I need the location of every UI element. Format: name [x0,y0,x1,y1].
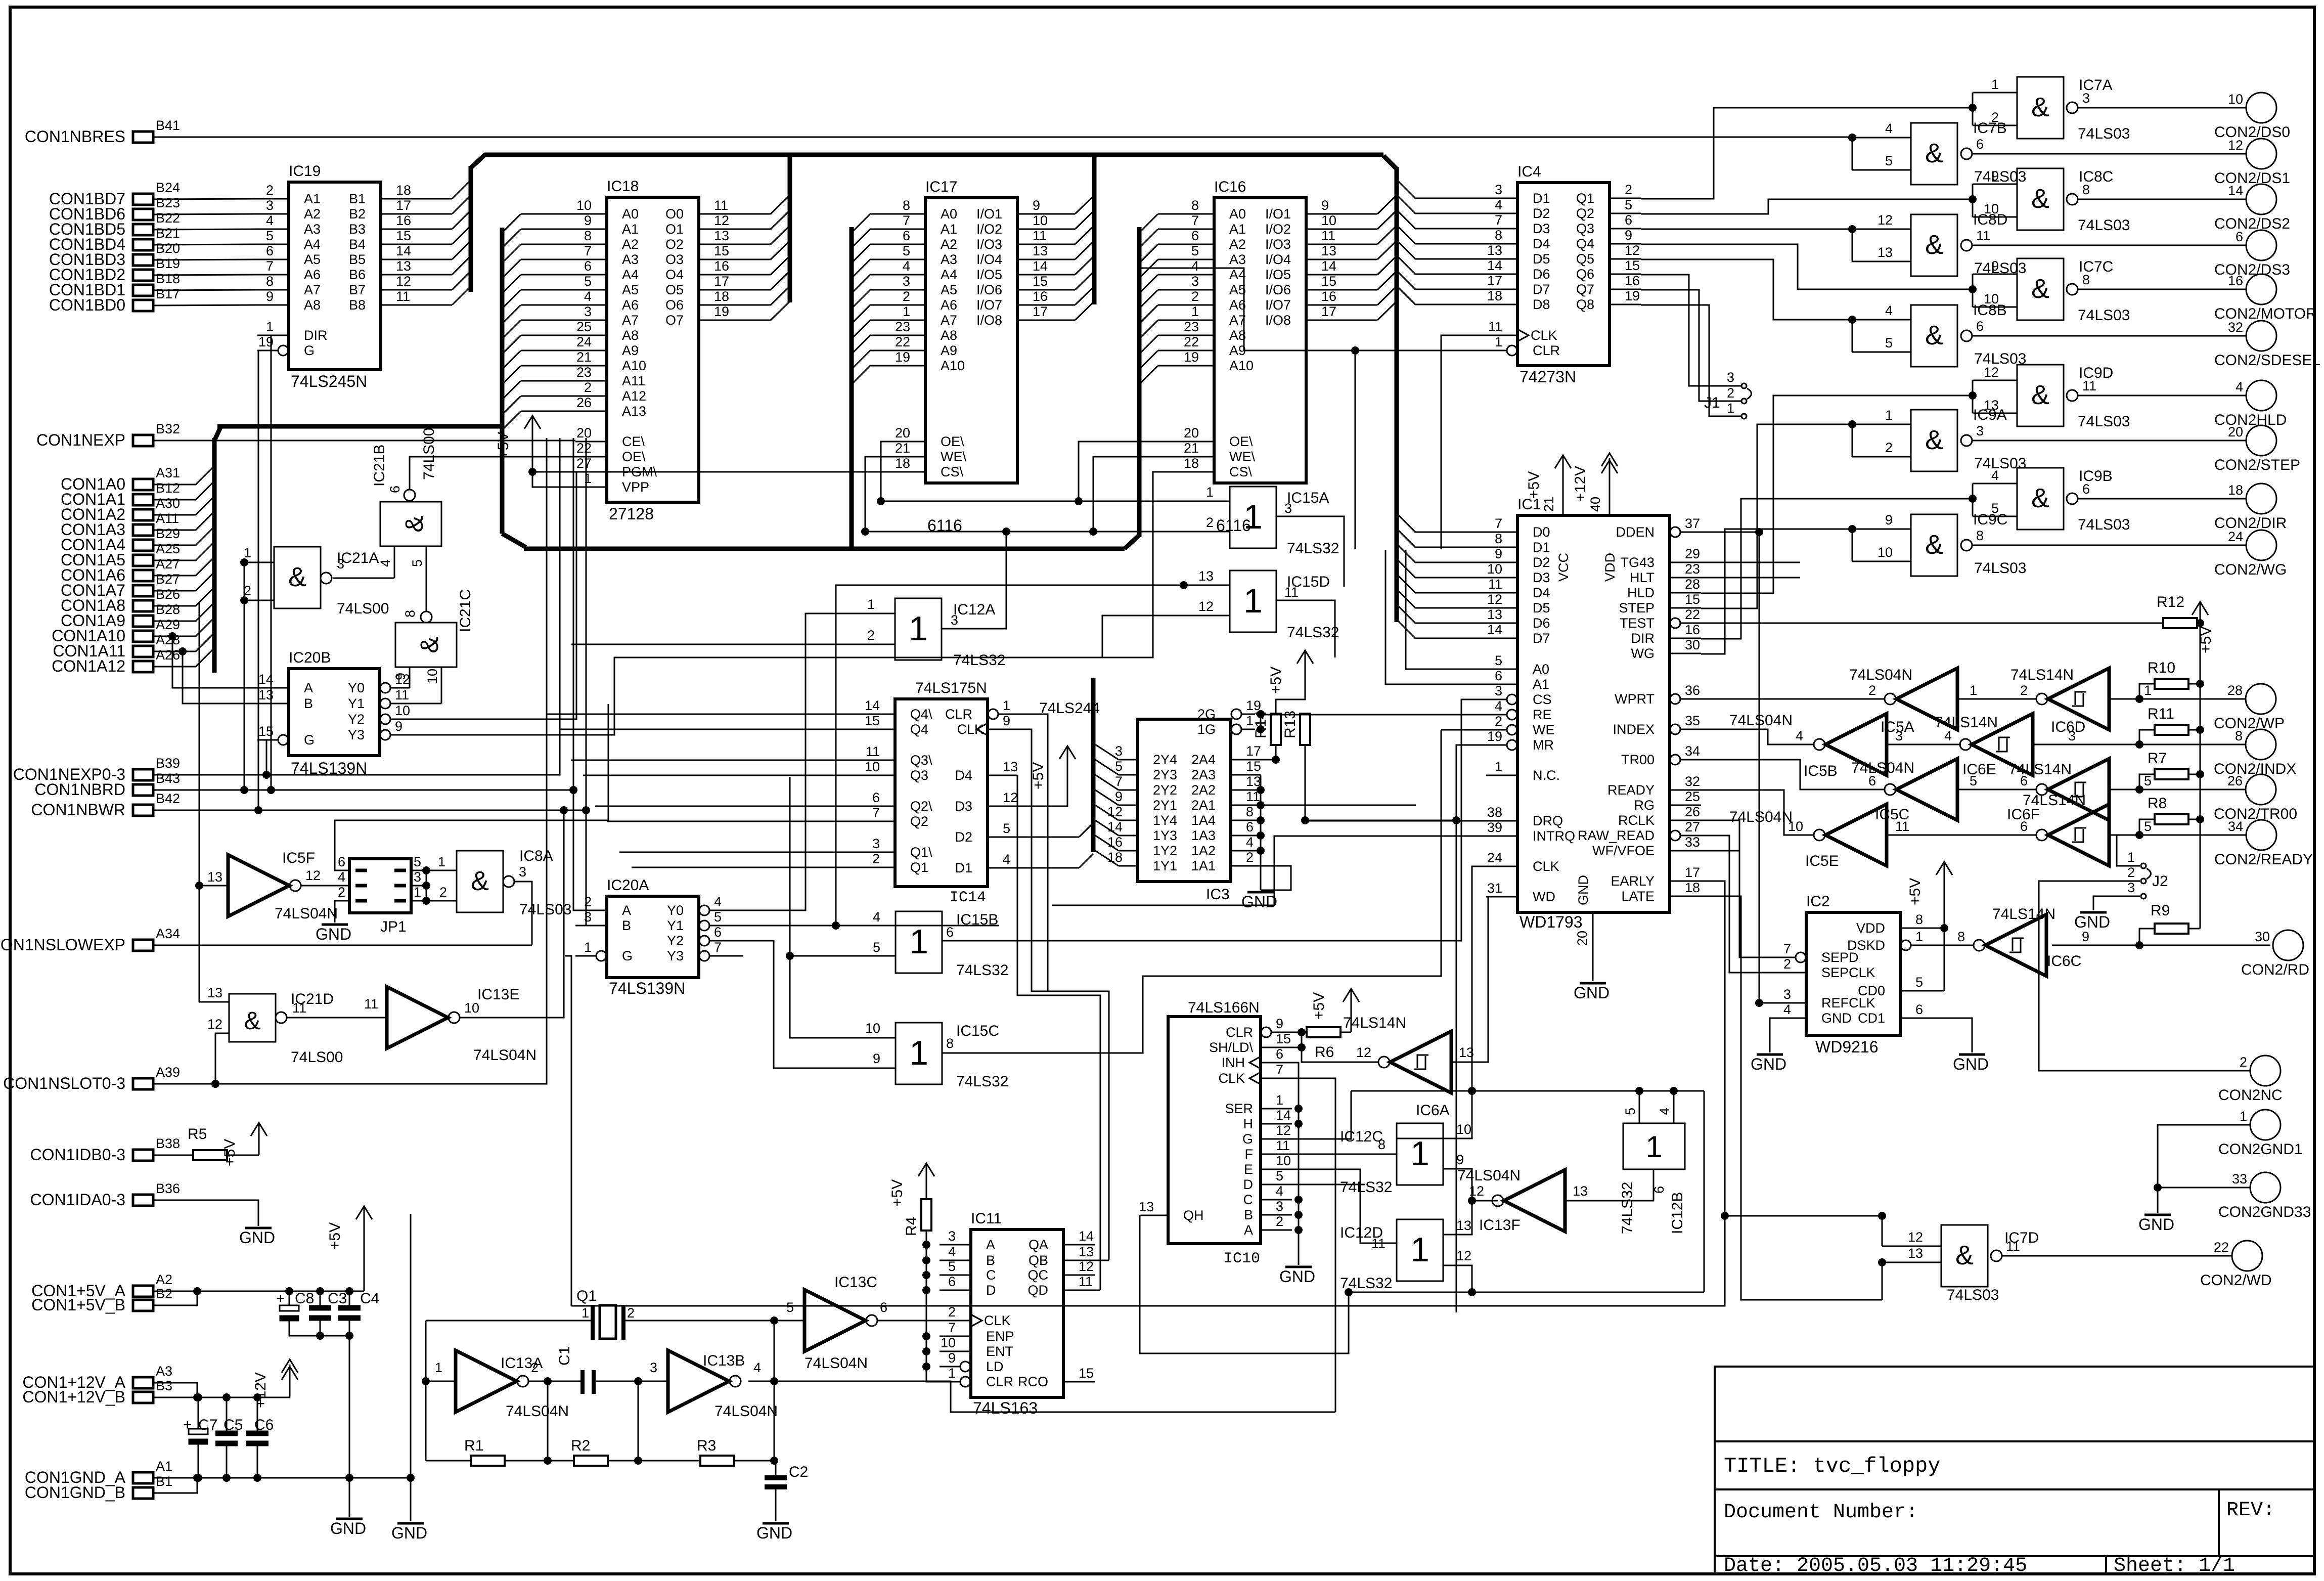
svg-text:11: 11 [866,744,880,759]
svg-text:74LS03: 74LS03 [2078,307,2130,324]
svg-text:74LS14N: 74LS14N [2008,761,2072,778]
svg-text:&: & [2031,92,2049,122]
connector CON2GND33 [2218,1171,2311,1220]
svg-text:74LS14N: 74LS14N [2023,792,2086,809]
label IC6F [2007,806,2040,823]
svg-text:O3: O3 [665,252,684,267]
svg-text:7: 7 [1783,941,1791,956]
svg-text:14: 14 [865,698,880,713]
svg-text:1: 1 [1885,408,1893,423]
svg-text:IC8D: IC8D [1973,211,2007,228]
svg-text:HLD: HLD [1627,585,1655,600]
power +5V rail for R7-R11 [2192,602,2214,929]
svg-text:16: 16 [396,213,411,228]
NAND gate IC7C 74LS03 [1969,258,2246,324]
svg-text:R10: R10 [2148,660,2175,676]
svg-text:IC6D: IC6D [2051,719,2085,735]
svg-text:I/O6: I/O6 [976,282,1002,297]
svg-text:CON2/DS0: CON2/DS0 [2214,124,2290,141]
svg-text:10: 10 [1788,819,1803,834]
connector pad CON1BD3 (B20) [49,241,180,269]
ground at CON1IDA [239,1228,275,1247]
svg-text:5: 5 [1115,759,1123,774]
svg-text:C1: C1 [556,1346,573,1366]
svg-text:+5V: +5V [221,1139,238,1166]
wire data bus to IC1 D pins [1397,513,1486,638]
svg-text:&: & [1925,138,1943,168]
svg-text:9: 9 [1033,198,1040,213]
wire IC1 TG43 stub [1701,562,1800,563]
inverter IC5E 74LS04N [1788,804,1909,866]
svg-text:GND: GND [316,925,351,943]
schmitt inverter IC6F [2020,804,2152,866]
IC U3 74LS244 buffer [1039,698,1261,903]
wire IC4 Q4 to IC7C [1641,244,1973,289]
svg-text:9: 9 [1495,546,1502,561]
svg-text:TR00: TR00 [1621,752,1655,767]
svg-text:17: 17 [1033,304,1048,319]
svg-text:VDD: VDD [1602,553,1618,582]
svg-text:A31: A31 [156,465,180,480]
wire IC10 QH net [1140,1215,1353,1353]
svg-text:IC19: IC19 [289,163,321,180]
svg-text:74LS03: 74LS03 [1974,168,2026,185]
svg-text:5: 5 [873,940,880,955]
resistor R1 [426,1437,552,1466]
wire IC3 2A4 pullup stub [1261,759,1276,761]
label 74LS04N at IC5F [275,905,338,922]
svg-text:CLK: CLK [1531,328,1557,343]
svg-text:2Y2: 2Y2 [1153,782,1177,798]
svg-text:2: 2 [266,183,274,198]
svg-text:14: 14 [1033,258,1048,274]
svg-text:D5: D5 [1533,600,1550,616]
svg-text:C3: C3 [328,1290,347,1307]
wire IC21D out to IC13E [287,1017,387,1019]
svg-text:WG: WG [1631,646,1655,661]
label 74LS04N at IC13B [714,1403,778,1420]
connector pad CON1NSLOT0-3 (A39) [3,1065,180,1092]
svg-text:IC20A: IC20A [607,877,649,894]
OR gate IC15D 74LS32 [1198,568,1339,641]
wire IC16 I/O to data bus [1337,195,1397,320]
svg-text:+5V: +5V [1907,878,1924,905]
svg-text:I/O1: I/O1 [1265,206,1291,222]
svg-text:&: & [2031,184,2049,214]
svg-text:A3: A3 [304,222,321,237]
connector pad CON1NBRES (B41) [25,118,180,146]
svg-text:A0: A0 [622,206,639,222]
svg-text:&: & [2031,483,2049,513]
wire CON1NBRES net [153,134,1911,170]
svg-text:3: 3 [948,1228,956,1244]
svg-text:23: 23 [895,319,910,334]
svg-text:12: 12 [1456,1248,1471,1263]
svg-text:2: 2 [2240,1055,2247,1070]
svg-text:6: 6 [903,228,910,243]
svg-text:8: 8 [1191,198,1199,213]
wire CON1NBRD net [153,438,577,910]
svg-text:A26: A26 [156,647,180,663]
power +12V arrow at IC1 VDD [1572,453,1618,502]
svg-text:GND: GND [1576,875,1591,905]
wire IC15D out [1276,600,1335,657]
svg-text:7: 7 [1115,774,1123,789]
svg-text:N.C.: N.C. [1533,768,1560,783]
wire JP1 pin6 net [335,704,608,870]
svg-text:12: 12 [1908,1229,1923,1245]
svg-text:4: 4 [948,1244,956,1259]
svg-text:15: 15 [258,724,274,739]
connector CON2/TR00 [2214,773,2297,822]
svg-text:Q1: Q1 [576,1288,597,1304]
svg-text:74LS244: 74LS244 [1039,700,1100,717]
svg-text:OE\: OE\ [941,434,964,449]
svg-text:IC9C: IC9C [1973,511,2007,528]
svg-text:IC13E: IC13E [477,986,519,1003]
svg-text:16: 16 [1107,835,1123,850]
svg-text:5: 5 [266,228,274,243]
wire IC1 READY to inverters [1701,790,1814,835]
svg-text:A2: A2 [1229,237,1246,252]
svg-text:5: 5 [786,1300,794,1315]
svg-text:J1: J1 [1704,394,1720,411]
connector pad CON1+5V_A (A2) [31,1272,172,1300]
svg-text:1: 1 [909,923,928,961]
svg-text:D6: D6 [1533,616,1550,631]
wire +5V rail to caps [364,1238,365,1291]
svg-text:A8: A8 [304,297,321,313]
svg-text:74LS04N: 74LS04N [506,1403,569,1420]
svg-text:+12V: +12V [252,1372,269,1408]
svg-text:2: 2 [338,885,345,900]
svg-text:23: 23 [1685,561,1700,577]
wire IC15B pin5 net [786,777,896,1038]
wire CON1A10 to IC20B A [168,632,257,688]
OR gate IC12B 74LS32 [1619,1091,1686,1234]
svg-text:8: 8 [2235,728,2243,743]
svg-text:DDEN: DDEN [1616,524,1655,540]
svg-text:CON1NBRES: CON1NBRES [25,127,125,146]
svg-text:5: 5 [1623,1108,1638,1115]
svg-text:2: 2 [872,851,880,866]
svg-text:2: 2 [1191,289,1199,304]
svg-text:5: 5 [414,854,421,869]
svg-text:CLK: CLK [1533,859,1559,874]
svg-text:SEPCLK: SEPCLK [1821,965,1875,980]
svg-text:74LS32: 74LS32 [1287,540,1339,557]
svg-text:19: 19 [1184,349,1199,365]
svg-text:17: 17 [714,274,729,289]
svg-text:12: 12 [1079,1259,1094,1274]
resistor R13 [1282,711,1310,745]
svg-text:CLK: CLK [984,1313,1011,1328]
label 74LS14N at IC6A [1343,1015,1406,1031]
svg-text:+: + [183,1417,192,1433]
svg-text:15: 15 [1321,274,1336,289]
svg-text:GND: GND [2074,913,2110,931]
label IC13F [1479,1217,1521,1234]
connector pad CON1NBRD (B43) [34,771,180,799]
svg-text:A2: A2 [304,206,321,222]
svg-text:1: 1 [582,1305,589,1321]
svg-text:I/O4: I/O4 [976,252,1002,267]
svg-text:1Y4: 1Y4 [1153,813,1177,828]
svg-text:14: 14 [1321,258,1336,274]
svg-text:2Y3: 2Y3 [1153,767,1177,782]
wire IC20A Y1 net [717,581,1230,930]
svg-text:A3: A3 [156,1364,172,1379]
label IC13C [834,1274,877,1291]
wire IC1 WF/VFOE stub [1701,850,1739,852]
svg-text:A34: A34 [156,926,180,941]
svg-text:15: 15 [396,228,411,243]
svg-text:25: 25 [1685,789,1700,804]
svg-text:9: 9 [395,719,403,734]
svg-text:4: 4 [1885,303,1893,318]
svg-text:IC5B: IC5B [1804,763,1838,779]
wire IC1 WPRT to inverters [1701,698,1885,700]
svg-text:15: 15 [1033,274,1048,289]
svg-text:IC4: IC4 [1517,163,1541,180]
inverter IC5F 74LS04N [207,855,321,916]
svg-text:IC7B: IC7B [1973,120,2007,137]
svg-text:22: 22 [1184,334,1199,349]
svg-text:4: 4 [903,258,910,274]
svg-text:18: 18 [2228,482,2243,498]
svg-text:2: 2 [2020,683,2028,698]
svg-text:R3: R3 [697,1437,716,1454]
svg-text:TITLE: tvc_floppy: TITLE: tvc_floppy [1724,1454,1940,1478]
svg-text:IC18: IC18 [607,178,639,195]
svg-text:6: 6 [1246,819,1254,835]
svg-text:34: 34 [1685,743,1700,759]
svg-text:&: & [471,866,489,896]
svg-text:A1: A1 [1533,677,1549,692]
svg-text:10: 10 [941,1335,956,1350]
svg-text:10: 10 [1321,213,1336,228]
svg-text:74LS03: 74LS03 [2078,516,2130,533]
svg-text:8: 8 [1495,531,1502,546]
svg-text:A2: A2 [156,1272,172,1287]
svg-text:5: 5 [1495,653,1502,668]
svg-text:5: 5 [1915,975,1923,990]
svg-text:I/O2: I/O2 [976,222,1002,237]
wire TR00 chain [1957,785,2246,794]
svg-text:11: 11 [1488,319,1502,334]
svg-text:4: 4 [1657,1108,1672,1115]
svg-text:2Y4: 2Y4 [1153,752,1177,767]
svg-text:A0: A0 [941,206,957,222]
svg-text:I/O6: I/O6 [1265,282,1291,297]
NAND gate IC9B 74LS03 [1969,468,2246,533]
svg-text:5: 5 [2144,819,2152,834]
svg-text:8: 8 [1957,929,1965,944]
svg-text:74LS166N: 74LS166N [1188,999,1260,1016]
connector pad CON1BD2 (B19) [49,256,180,284]
svg-text:9: 9 [948,1350,956,1366]
wire J2 pin3 to GND [2093,896,2140,910]
bus data vertical x1562 [788,155,792,302]
svg-text:10: 10 [865,759,880,774]
svg-text:15: 15 [865,713,880,728]
wire IC21B pin5 net [0,0,1,1]
svg-text:9: 9 [1991,168,1999,184]
svg-text:18: 18 [714,289,729,304]
svg-text:LD: LD [986,1359,1004,1374]
capacitor C1 [556,1346,594,1394]
svg-text:1: 1 [1645,1130,1662,1164]
wire IC14 Q pin row 1412 [547,714,864,715]
svg-text:E: E [1244,1162,1253,1177]
wire CON1NEXP0-3 net [153,438,560,779]
svg-text:GND: GND [1751,1055,1786,1073]
svg-text:13: 13 [1198,568,1214,584]
svg-text:CD1: CD1 [1858,1011,1885,1026]
svg-text:1: 1 [2144,683,2152,698]
wire net y2157 [1351,1087,1704,1095]
svg-text:14: 14 [2228,183,2243,198]
svg-text:MR: MR [1533,737,1554,753]
svg-text:Y1: Y1 [348,696,365,711]
svg-text:R13: R13 [1282,711,1299,738]
svg-text:CON2/SDESEL: CON2/SDESEL [2214,352,2320,369]
wire IC1 CS from IC15B [1276,699,1501,941]
connector pad CON1A9 (B28) [61,602,180,630]
svg-text:A10: A10 [941,358,965,373]
wire IC15B out [942,940,1461,942]
bus main horizontal y1085 [524,547,1125,551]
resistor R4 [903,1199,931,1236]
NAND gate IC8D 74LS03 [1878,211,2246,277]
svg-text:4: 4 [1276,1183,1283,1199]
svg-text:D1: D1 [1533,540,1550,555]
svg-text:11: 11 [1033,228,1047,243]
wire R14 top rail [1276,682,1305,714]
svg-text:A25: A25 [156,541,180,556]
connector pad CON1BD1 (B18) [49,271,180,299]
svg-text:74LS00: 74LS00 [291,1049,343,1066]
wire IC13B out [748,1381,1335,1412]
wire IC21C inputs from IC20B [392,688,441,704]
svg-text:REV:: REV: [2226,1499,2275,1522]
IC U2 WD9216 data separator [1775,893,1932,1056]
svg-text:C: C [1243,1192,1254,1207]
svg-text:13: 13 [1908,1246,1923,1261]
wire IC14 D2 to bus [1017,823,1093,837]
connector CON2 CON2/DS1 [2214,138,2290,187]
svg-text:12: 12 [1107,804,1123,819]
svg-text:D4: D4 [955,768,972,783]
svg-text:20: 20 [576,425,592,441]
svg-text:IC12B: IC12B [1669,1192,1686,1234]
svg-text:5: 5 [1625,197,1632,212]
svg-text:7: 7 [1276,1062,1283,1077]
ground at IC1 [1574,983,1610,1002]
svg-text:14: 14 [1487,622,1502,637]
inverter IC13A 74LS04N [435,1350,539,1412]
svg-text:9: 9 [1276,1016,1283,1031]
connector pad CON1IDB0-3 (B38) [30,1136,181,1164]
svg-text:&: & [400,515,428,532]
svg-text:28: 28 [2227,683,2243,698]
wire IC4 Q3 to IC8D [1641,225,1911,261]
wire IC19 DIR net [267,335,275,794]
svg-text:INTRQ: INTRQ [1533,828,1575,844]
svg-text:7: 7 [1191,213,1199,228]
svg-text:CLR: CLR [986,1374,1013,1389]
wire IC15A out [1276,516,1344,587]
svg-text:2: 2 [1206,515,1214,530]
IC U19 74LS245N [257,163,412,390]
connector pad CON1A3 (A11) [61,511,179,539]
svg-text:74LS14N: 74LS14N [1992,906,2055,923]
svg-text:REFCLK: REFCLK [1821,995,1875,1011]
svg-text:9: 9 [584,213,592,228]
svg-text:+5V: +5V [495,432,512,459]
svg-text:G: G [622,948,633,963]
svg-text:20: 20 [1184,425,1199,441]
svg-text:1: 1 [1970,683,1977,698]
wire IC14 D3 +5V [1017,777,1067,806]
svg-text:74LS32: 74LS32 [953,652,1005,669]
svg-text:B17: B17 [156,286,180,301]
connector CON2/INDX [2214,728,2296,777]
svg-text:8: 8 [1495,228,1502,243]
label IC6E [1962,761,1996,778]
wire CON1NSLOWEXP net [153,945,532,946]
schmitt inverter IC6D [1944,714,2076,775]
svg-text:12: 12 [1487,592,1502,607]
svg-text:12: 12 [1984,365,1999,380]
svg-text:A8: A8 [941,328,957,343]
svg-text:37: 37 [1685,516,1700,531]
svg-text:1: 1 [1495,759,1502,774]
resistor R12 [2157,594,2197,628]
wire +12V pads net [153,1383,290,1401]
svg-text:13: 13 [1459,1045,1474,1060]
svg-text:B12: B12 [156,480,180,496]
svg-text:74LS32: 74LS32 [1340,1275,1392,1292]
wire IC2 VDD +5V [1932,893,1948,991]
NAND gate IC9A 74LS03 [1885,407,2246,472]
svg-text:GND: GND [1953,1055,1989,1073]
svg-text:2: 2 [1885,440,1893,455]
svg-text:35: 35 [1685,713,1700,728]
svg-text:24: 24 [576,334,592,349]
NAND gate IC8A 74LS03 [457,848,571,918]
wire IC2 GND pin [1770,1018,1775,1052]
power +12V arrow main [252,1359,298,1408]
ground at J2 [2074,912,2110,931]
svg-text:&: & [244,1006,260,1035]
connector CON2 CON2/STEP [2214,424,2300,473]
connector CON2 CON2/DS3 [2214,229,2290,278]
svg-text:B7: B7 [349,282,366,297]
svg-text:R11: R11 [2148,706,2174,722]
svg-text:IC15C: IC15C [956,1023,999,1039]
svg-text:F: F [1245,1147,1254,1162]
svg-text:WE\: WE\ [1229,449,1255,464]
svg-text:B: B [622,918,631,933]
resistor R11 [2139,706,2204,744]
wire IC4 Q6 to J1 [1641,275,1741,386]
svg-text:30: 30 [1685,637,1700,652]
schmitt? no - inverter IC13F [1469,1170,1588,1232]
svg-text:A5: A5 [622,282,639,297]
connector pad CON1A0 (A31) [61,465,180,493]
svg-text:CLK: CLK [1218,1071,1245,1086]
